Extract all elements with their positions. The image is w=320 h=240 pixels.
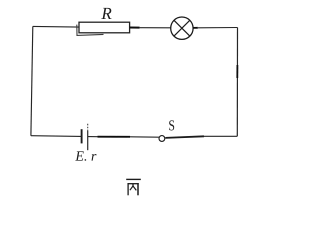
resistor R (box)	[79, 22, 130, 33]
lamp (circle with X)	[171, 17, 193, 39]
wire: switch to battery	[130, 136, 159, 138]
wire: left side vertical	[31, 26, 33, 135]
battery E,r (long thin + short thick plates)	[82, 124, 88, 150]
wire: resistor to lamp	[130, 27, 140, 29]
wire: lamp to top-right corner	[193, 27, 198, 29]
caption 丙 (drawn strokes)	[126, 179, 141, 195]
label S	[169, 120, 174, 130]
wire: battery to bottom-left corner	[31, 135, 82, 138]
switch S (lever and contact circle)	[165, 136, 204, 138]
label E. r	[75, 151, 96, 160]
resistor scan double-line artifact	[77, 25, 104, 36]
wire: right side vertical	[236, 28, 238, 137]
label R	[101, 8, 111, 19]
wire: top-left horizontal segment	[33, 25, 79, 28]
wire: bottom-right corner to switch lever	[204, 135, 237, 137]
